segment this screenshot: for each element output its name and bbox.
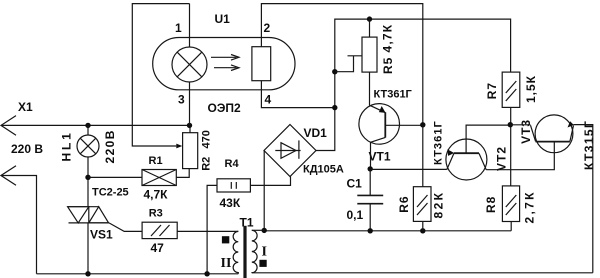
wire: R4 left to mains return bbox=[207, 185, 217, 273]
wire: wiper loop (pin1 to R2 arrow) bbox=[132, 4, 189, 146]
diode bridge VD1 bbox=[264, 125, 316, 177]
wire: VS1 bottom to mains return bbox=[87, 223, 89, 274]
wire: R5 bottom to VT1 emitter bbox=[369, 72, 371, 105]
transistor VT3 КТ315Г bbox=[531, 115, 574, 153]
wire: secondary top to rail bbox=[252, 229, 264, 231]
wire: R6 bottom bbox=[422, 221, 424, 230]
optocoupler U1 ОЭП2 body bbox=[153, 38, 295, 90]
opto light arrow upper bbox=[211, 55, 239, 61]
connector X1 arrow top bbox=[1, 116, 16, 136]
wire: R5 top bbox=[369, 19, 371, 37]
label R6 bbox=[397, 195, 411, 212]
wire: bridge left corner to secondary top bbox=[263, 151, 265, 231]
junction: VT1 collector / C1 / VT2 emitter bbox=[368, 166, 373, 171]
label R5 bbox=[381, 57, 395, 74]
svg-text:4,7К: 4,7К bbox=[144, 187, 169, 201]
svg-text:II: II bbox=[221, 256, 232, 271]
svg-text:КТ361Г: КТ361Г bbox=[374, 89, 413, 101]
label 2,7К bbox=[523, 190, 537, 223]
label R2 bbox=[201, 157, 213, 171]
svg-text:1,5К: 1,5К bbox=[524, 75, 538, 103]
svg-text:3: 3 bbox=[178, 93, 185, 107]
svg-text:43К: 43К bbox=[220, 196, 241, 210]
rheostat R2 body bbox=[183, 133, 198, 169]
svg-text:ОЭП2: ОЭП2 bbox=[208, 101, 241, 115]
svg-text:R4: R4 bbox=[225, 158, 240, 170]
junction: HL1 top on mains line bbox=[85, 123, 90, 128]
svg-text:R2: R2 bbox=[201, 157, 213, 171]
svg-text:I: I bbox=[262, 245, 267, 260]
opto lamp bbox=[172, 47, 207, 82]
resistor R8 bbox=[502, 186, 519, 222]
svg-text:4: 4 bbox=[265, 93, 272, 107]
svg-text:2: 2 bbox=[264, 21, 271, 35]
pin 4 wire bbox=[261, 81, 334, 108]
wire: R2 top to mains node bbox=[189, 125, 191, 132]
label 470 bbox=[201, 130, 213, 148]
svg-text:КД105А: КД105А bbox=[303, 164, 344, 176]
junction: R5 top on rail bbox=[367, 16, 372, 21]
svg-text:R3: R3 bbox=[149, 208, 163, 220]
svg-text:R7: R7 bbox=[485, 82, 499, 99]
wire: VT1 collector down bbox=[370, 142, 372, 169]
capacitor C1 bbox=[357, 169, 383, 231]
svg-text:4,7К: 4,7К bbox=[381, 24, 395, 53]
wire: bridge right corner up to supply rail and down to R7 bbox=[316, 19, 511, 150]
svg-text:0,1: 0,1 bbox=[347, 208, 364, 222]
junction: R6 bottom bbox=[420, 228, 425, 233]
svg-text:VT2: VT2 bbox=[495, 146, 509, 171]
junction: VT1 base node bbox=[420, 122, 425, 127]
wire: R8 bottom to rail bbox=[510, 222, 512, 231]
transformer winding I (secondary) bbox=[252, 230, 257, 272]
wire: R1 to R2 bottom bbox=[176, 169, 189, 178]
svg-text:220 В: 220 В bbox=[11, 142, 43, 156]
label КТ361Г (VT2) bbox=[433, 120, 445, 165]
junction: R5 tap node bbox=[332, 69, 337, 74]
svg-text:47: 47 bbox=[151, 241, 165, 255]
svg-text:82К: 82К bbox=[432, 191, 446, 219]
pin 1 wire bbox=[189, 4, 191, 48]
svg-text:R5: R5 bbox=[381, 57, 395, 74]
label 4,7К (R5) bbox=[381, 24, 395, 53]
junction: VS1 on mains bottom bbox=[85, 271, 90, 276]
wire: VT2 collector to VT3 base bbox=[486, 142, 554, 170]
wire: R7 bottom to R8 top bbox=[510, 107, 512, 185]
svg-text:VT1: VT1 bbox=[369, 150, 391, 164]
transistor VT2 КТ361Г bbox=[446, 139, 487, 180]
svg-text:R8: R8 bbox=[484, 196, 498, 213]
svg-text:U1: U1 bbox=[215, 12, 231, 26]
label VT3 bbox=[519, 119, 533, 144]
svg-text:R6: R6 bbox=[397, 195, 411, 212]
pin 2 wire and loop to VT1 base bbox=[261, 4, 422, 125]
svg-text:220В: 220В bbox=[103, 129, 117, 163]
svg-text:470: 470 bbox=[201, 130, 213, 148]
svg-text:VT3: VT3 bbox=[519, 119, 533, 144]
wire: node to R1 bbox=[88, 176, 142, 178]
resistor R4 bbox=[217, 179, 250, 192]
junction: R4 on mains bottom bbox=[204, 271, 209, 276]
junction: C1 bottom bbox=[368, 228, 373, 233]
svg-text:1: 1 bbox=[175, 21, 182, 35]
label 82К bbox=[432, 191, 446, 219]
svg-text:C1: C1 bbox=[347, 177, 363, 191]
wire: bottom feed to mains return bbox=[1, 176, 37, 274]
wire: R6 top bbox=[422, 125, 424, 187]
svg-text:КТ361Г: КТ361Г bbox=[433, 120, 445, 165]
resistor R3 bbox=[142, 222, 177, 238]
connector X1 arrow bottom bbox=[1, 166, 16, 186]
winding II polarity mark bbox=[222, 236, 229, 243]
wire: secondary bottom line bbox=[252, 272, 593, 274]
wire: R3 to primary top bbox=[177, 230, 238, 232]
wire: DC minus rail bbox=[264, 230, 511, 232]
transformer winding II (primary) bbox=[233, 231, 238, 273]
junction: pin4 node bbox=[332, 105, 337, 110]
label R8 bbox=[484, 196, 498, 213]
winding I polarity mark bbox=[259, 260, 266, 267]
wire: VT3 emitter to bottom right bbox=[574, 125, 593, 273]
trimmer R5 body bbox=[362, 37, 377, 72]
label 1,5К bbox=[524, 75, 538, 103]
wire: mains bottom line bbox=[37, 273, 239, 275]
triac VS1 ТС2-25 bbox=[68, 207, 109, 223]
resistor R7 bbox=[502, 72, 520, 107]
wire: VS1 gate bbox=[109, 223, 142, 232]
junction: VS1/R1 node bbox=[85, 175, 90, 180]
resistor R6 bbox=[413, 187, 431, 222]
rheostat R2 wiper arrow bbox=[176, 144, 182, 149]
svg-text:HL1: HL1 bbox=[60, 130, 74, 161]
svg-text:R1: R1 bbox=[149, 155, 163, 167]
label HL1 bbox=[60, 130, 74, 161]
wire: VT1 base to R6 node bbox=[385, 124, 423, 126]
svg-text:ТС2-25: ТС2-25 bbox=[92, 187, 129, 199]
transformer T1 core bbox=[243, 226, 246, 278]
svg-text:VD1: VD1 bbox=[304, 126, 328, 140]
label 220В (lamp) bbox=[103, 129, 117, 163]
svg-text:КТ315Г: КТ315Г bbox=[582, 120, 596, 170]
label VT2 bbox=[495, 146, 509, 171]
junction: R7/VT2 base/VT3 collector bbox=[508, 122, 513, 127]
svg-text:VS1: VS1 bbox=[90, 228, 113, 242]
label КТ315Г bbox=[582, 120, 596, 170]
svg-text:T1: T1 bbox=[240, 216, 254, 230]
junction: pin3/R2/mains node bbox=[187, 123, 192, 128]
svg-text:X1: X1 bbox=[18, 100, 33, 114]
wire: mains top 220V line bbox=[1, 124, 190, 126]
wire: R4 right to bridge bottom bbox=[250, 177, 290, 186]
resistor R1 bbox=[142, 170, 176, 186]
trimmer R5 tap bbox=[335, 56, 362, 72]
wire: node to VT2 emitter bbox=[370, 168, 447, 170]
opto light arrow lower bbox=[214, 65, 239, 71]
junction: rail left / secondary top bbox=[262, 228, 267, 233]
label R7 bbox=[485, 82, 499, 99]
wire: VT3 collector to node bbox=[510, 124, 530, 126]
transistor VT1 КТ361Г bbox=[359, 104, 400, 145]
lamp HL1 bbox=[77, 125, 99, 206]
wire: VT2 base up and right bbox=[466, 125, 510, 153]
pin 3 wire bbox=[189, 82, 191, 125]
opto photoresistor bbox=[252, 47, 271, 81]
svg-text:2,7К: 2,7К bbox=[523, 190, 537, 223]
